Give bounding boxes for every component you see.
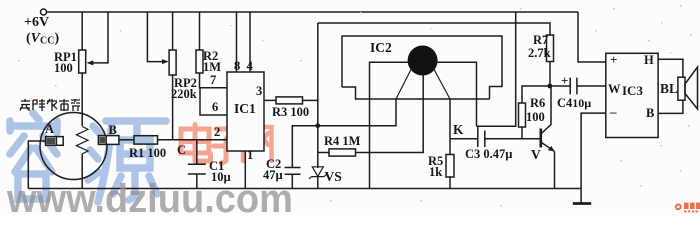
svg-text:6: 6 bbox=[212, 100, 218, 114]
wire R2 top drop bbox=[199, 12, 201, 50]
wire IC3 B to speaker bbox=[658, 100, 683, 113]
IC2 chip blob bbox=[408, 46, 438, 76]
watermark char yuan bbox=[88, 121, 166, 202]
wire node to R6 bbox=[522, 86, 550, 103]
wire C1 to ground bbox=[196, 174, 198, 189]
watermark char zi bbox=[214, 129, 239, 163]
resistor R4 bbox=[329, 149, 356, 156]
resistor RP1 bbox=[79, 50, 86, 73]
wire node column bbox=[317, 23, 319, 168]
svg-text:VS: VS bbox=[325, 169, 342, 184]
svg-text:220k: 220k bbox=[171, 87, 197, 101]
wire node C down to C1 bbox=[196, 140, 198, 164]
resistor R5 bbox=[446, 155, 454, 178]
svg-text:+: + bbox=[561, 73, 568, 88]
wire RP1 bottom to sensor heater bbox=[81, 73, 83, 126]
watermark char rong bbox=[10, 113, 57, 172]
IC2 inner pad frame bbox=[370, 62, 477, 126]
bond wire right bbox=[434, 69, 451, 100]
IC2 pin bus box bbox=[477, 12, 516, 126]
wire C2 to ground bbox=[291, 174, 293, 188]
wire pin7 to pin6 tie bbox=[200, 88, 227, 115]
svg-text:R1 100: R1 100 bbox=[129, 146, 166, 160]
label gas sensor (CJK drawn) bbox=[20, 99, 80, 111]
svg-text:B: B bbox=[109, 123, 117, 137]
svg-text:B: B bbox=[646, 106, 654, 120]
wire RP2 wiper from rail bbox=[147, 12, 163, 62]
wire IC3 minus to ground bbox=[581, 113, 606, 188]
svg-text:www.dziuu.com: www.dziuu.com bbox=[6, 177, 293, 215]
wire R7 to node bbox=[549, 62, 551, 87]
op-amp U IC3 box bbox=[606, 53, 658, 137]
wire R4 left bbox=[318, 152, 329, 154]
wire node to IC2 pad bbox=[318, 99, 396, 126]
+6V supply terminal bbox=[41, 9, 47, 15]
wire C3 to base bbox=[485, 138, 540, 140]
svg-text:V: V bbox=[531, 147, 541, 162]
resistor R1 bbox=[134, 136, 158, 144]
svg-text:BL: BL bbox=[660, 81, 678, 96]
wire RP1 wiper to rail bbox=[92, 12, 108, 63]
wire IC1 output sub-rail to R7 bbox=[318, 23, 550, 35]
svg-text:C: C bbox=[177, 143, 186, 157]
svg-text:+6V: +6V bbox=[24, 15, 49, 30]
IC2 outline bottom edge bbox=[342, 87, 490, 99]
svg-text:IC3: IC3 bbox=[622, 83, 643, 98]
wire RP2 top drop bbox=[172, 12, 174, 50]
capacitor C3 bbox=[478, 126, 485, 147]
svg-text:IC2: IC2 bbox=[370, 40, 392, 55]
capacitor C2 bbox=[285, 168, 301, 175]
wire heater bottom to ground rail bbox=[81, 154, 83, 189]
op-amp U IC1 box bbox=[227, 72, 264, 151]
wire R2 to pin7 bbox=[200, 73, 228, 88]
svg-text:2: 2 bbox=[214, 125, 220, 139]
resistor R6 bbox=[519, 103, 526, 127]
svg-text:4: 4 bbox=[247, 59, 254, 73]
wire IC2 pin K column bbox=[449, 99, 451, 155]
heater zigzag bbox=[76, 127, 88, 154]
wire K node to C3 bbox=[450, 138, 478, 140]
wire R1 to IC1 pin2 bbox=[158, 139, 228, 141]
site logo red bbox=[675, 203, 700, 213]
zener diode VS bbox=[309, 167, 326, 179]
wire IC2 ground pin bbox=[369, 99, 371, 189]
wire R4 to blob pin bbox=[356, 75, 424, 153]
svg-text:R6: R6 bbox=[530, 96, 545, 110]
wire IC1 pin3 out bbox=[264, 99, 276, 101]
wire IC1 pin1 to ground bbox=[244, 151, 246, 189]
gas sensor body bbox=[40, 113, 107, 180]
svg-text:A: A bbox=[45, 122, 54, 136]
svg-text:H: H bbox=[644, 53, 654, 67]
svg-text:W: W bbox=[608, 82, 621, 96]
watermark char wang bbox=[243, 127, 272, 161]
wire IC1 pin8 bbox=[236, 12, 238, 72]
node B junction dot bbox=[547, 84, 552, 89]
resistor R2 bbox=[196, 50, 203, 73]
svg-text:R3 100: R3 100 bbox=[272, 105, 309, 119]
capacitor C4 bbox=[570, 78, 577, 95]
wire node to C4 bbox=[550, 85, 570, 87]
potentiometer RP2 bbox=[169, 50, 176, 75]
wire B to R1 bbox=[119, 139, 134, 141]
IC2 module outline bbox=[342, 36, 502, 99]
svg-text:8: 8 bbox=[234, 59, 240, 73]
bond wire left bbox=[396, 69, 412, 100]
wire IC3 H to speaker bbox=[658, 59, 683, 77]
watermark char dian bbox=[181, 129, 209, 153]
capacitor C1 bbox=[188, 164, 206, 174]
resistor R7 bbox=[547, 35, 554, 62]
svg-text:(VCC): (VCC) bbox=[26, 31, 59, 47]
wire VS to ground bbox=[317, 177, 319, 189]
ground bottom rail bbox=[28, 188, 581, 190]
wire R5 to ground bbox=[449, 177, 451, 189]
wire node to C2 bbox=[292, 126, 318, 168]
wire top supply rail bbox=[47, 11, 579, 13]
wire C4 to IC3 W bbox=[577, 85, 606, 87]
wire RP1 top drop bbox=[81, 12, 83, 50]
transistor V base bar bbox=[539, 129, 542, 148]
node A junction dot bbox=[315, 123, 320, 128]
svg-text:2.7k: 2.7k bbox=[528, 46, 551, 60]
svg-text:C3 0.47µ: C3 0.47µ bbox=[465, 147, 512, 161]
svg-text:R4 1M: R4 1M bbox=[324, 134, 361, 148]
svg-text:7: 7 bbox=[210, 73, 216, 87]
svg-text:IC1: IC1 bbox=[234, 101, 256, 116]
wire RP2 bottom to sensor node bbox=[172, 75, 174, 140]
electrode A bbox=[46, 137, 64, 146]
svg-text:K: K bbox=[453, 122, 464, 137]
electrode B bbox=[98, 136, 119, 145]
svg-text:1k: 1k bbox=[429, 165, 442, 179]
svg-text:1: 1 bbox=[247, 148, 253, 162]
wire A to left drop bbox=[28, 141, 45, 189]
svg-text:C410µ: C410µ bbox=[557, 96, 591, 110]
wire R3 to node bbox=[303, 99, 318, 101]
wire IC1 pin4 bbox=[249, 12, 251, 72]
transistor V emitter bbox=[541, 142, 555, 189]
svg-text:100: 100 bbox=[526, 110, 545, 124]
wire rail end to IC3 plus bbox=[578, 12, 606, 62]
svg-text:100: 100 bbox=[54, 61, 73, 75]
svg-text:+: + bbox=[610, 52, 617, 67]
svg-text:3: 3 bbox=[256, 84, 262, 98]
resistor R3 bbox=[276, 97, 303, 104]
svg-text:–: – bbox=[609, 104, 617, 119]
speaker BL bbox=[678, 77, 685, 100]
ground symbol bbox=[580, 189, 582, 204]
svg-text:1M: 1M bbox=[203, 60, 221, 74]
svg-text:R7: R7 bbox=[533, 33, 548, 47]
wire R6 to base bbox=[521, 127, 523, 139]
emitter arrowhead bbox=[548, 146, 555, 152]
transistor V collector bbox=[541, 86, 551, 134]
